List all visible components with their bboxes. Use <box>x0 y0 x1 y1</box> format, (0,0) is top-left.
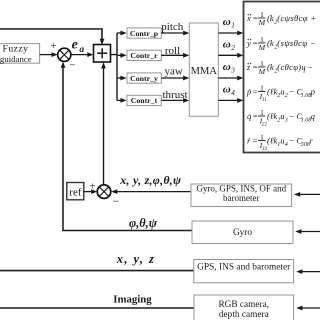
equation qdot <box>247 108 316 128</box>
label e_a <box>72 37 85 55</box>
svg-text:=: = <box>253 136 258 146</box>
svg-text:1: 1 <box>303 68 306 74</box>
svg-text:=: = <box>253 62 258 72</box>
svg-text:φ,θ,ψ: φ,θ,ψ <box>129 216 158 230</box>
block RGB camera depth camera <box>194 295 294 320</box>
svg-text:roll: roll <box>165 45 180 57</box>
svg-text:−: − <box>112 194 119 208</box>
summing junction S1 <box>58 48 71 61</box>
svg-text:Imaging: Imaging <box>113 293 152 305</box>
wire attitude feedback down-left with label phi,theta,psi <box>61 62 192 231</box>
svg-text:=: = <box>253 111 258 121</box>
svg-text:=: = <box>253 13 258 23</box>
svg-text:2: 2 <box>231 44 235 52</box>
equation yddot <box>246 35 316 52</box>
svg-text:Contr_r: Contr_r <box>130 51 158 60</box>
block ref <box>67 183 84 200</box>
svg-text:Contr_t: Contr_t <box>131 96 158 105</box>
svg-text:depth camera: depth camera <box>219 310 269 320</box>
wire MMA to model with label omega1 <box>218 16 243 36</box>
svg-text:3: 3 <box>230 66 235 74</box>
svg-text:pitch: pitch <box>161 21 183 33</box>
equation xddot <box>246 10 317 27</box>
svg-text:(k: (k <box>267 62 274 72</box>
svg-text:−: − <box>69 60 75 72</box>
svg-text:ω: ω <box>223 84 231 96</box>
wire Contr_p to MMA with label pitch <box>161 21 189 36</box>
svg-text:Contr_p: Contr_p <box>130 29 159 38</box>
svg-text:Gyro: Gyro <box>233 228 252 238</box>
svg-text:guidance: guidance <box>0 54 32 64</box>
svg-text:(k: (k <box>267 38 274 48</box>
wire S1 to summer block <box>71 52 94 57</box>
svg-text:4: 4 <box>231 89 235 97</box>
svg-text:+: + <box>89 180 95 192</box>
equation zddot <box>246 59 313 76</box>
wire right edge into GPS INS and barometer <box>296 269 320 274</box>
wire right edge into Gyro GPS INS OF barometer <box>294 192 320 197</box>
wire summer output and branch to controllers <box>111 31 127 103</box>
wire imaging with label Imaging <box>0 293 194 308</box>
svg-text:−: − <box>307 62 313 72</box>
svg-text:+: + <box>50 41 56 52</box>
svg-text:ω: ω <box>223 61 231 73</box>
svg-text:thrust: thrust <box>162 89 187 101</box>
svg-text:Contr_y: Contr_y <box>130 74 158 83</box>
svg-text:(cψsθcφ +: (cψsθcφ + <box>277 13 316 23</box>
block Gyro GPS INS OF and barometer <box>191 183 292 206</box>
wire ref to summing junction S2 <box>84 189 97 194</box>
svg-text:ω: ω <box>223 16 231 28</box>
wire MMA to model with label omega4 <box>218 84 243 103</box>
svg-text:x, y, z,φ,θ,ψ: x, y, z,φ,θ,ψ <box>119 173 182 187</box>
wire Fuzzy guidance to summing junction S1 <box>40 52 58 57</box>
svg-text:Fuzzy: Fuzzy <box>3 43 29 54</box>
block GPS INS and barometer <box>194 260 294 283</box>
svg-text:M: M <box>258 18 266 27</box>
svg-text:(ℓk: (ℓk <box>267 87 277 97</box>
svg-text:M: M <box>258 67 266 76</box>
summing junction S2 <box>97 185 111 199</box>
svg-text:308: 308 <box>300 142 310 148</box>
wire right edge into RGB camera <box>296 306 320 311</box>
svg-text:(ℓk: (ℓk <box>267 136 277 146</box>
svg-text:ref: ref <box>69 186 82 198</box>
block Fuzzy guidance <box>0 43 40 64</box>
equation pdot <box>246 83 316 103</box>
block Contr_r <box>127 50 161 60</box>
svg-text:33: 33 <box>261 146 268 152</box>
block Contr_t <box>127 95 161 105</box>
svg-text:GPS, INS and barometer: GPS, INS and barometer <box>197 262 291 272</box>
wire MMA to model with label omega2 <box>218 38 243 57</box>
wire feedback from sensors to S2 with label x,y,z,phi,theta,psi <box>111 173 191 194</box>
svg-text:1: 1 <box>231 21 235 29</box>
block MMA <box>189 23 218 116</box>
svg-text:3: 3 <box>284 117 288 123</box>
block dynamic model equations <box>244 2 320 153</box>
summer block (plus box) <box>94 45 111 63</box>
wire MMA to model with label omega3 <box>218 61 243 81</box>
svg-text:RGB camera,: RGB camera, <box>218 300 269 310</box>
svg-text:a: a <box>79 45 84 55</box>
wire position feedback with label x, y, z <box>0 252 194 271</box>
svg-text:4: 4 <box>285 141 288 148</box>
svg-text:ṗ: ṗ <box>246 87 252 97</box>
svg-text:x, y, z: x, y, z <box>116 252 156 266</box>
wire right edge into Gyro <box>295 229 320 234</box>
equation rdot <box>247 132 314 152</box>
svg-text:=: = <box>253 38 258 48</box>
svg-text:M: M <box>258 43 266 52</box>
svg-text:e: e <box>72 37 78 52</box>
svg-text:Gyro, GPS, INS, OF and: Gyro, GPS, INS, OF and <box>196 183 286 193</box>
svg-text:ω: ω <box>223 38 231 50</box>
svg-text:q: q <box>311 111 316 121</box>
svg-text:(sψsθcφ −: (sψsθcφ − <box>277 38 316 48</box>
svg-text:(ℓk: (ℓk <box>267 111 277 121</box>
svg-text:11: 11 <box>262 97 267 103</box>
svg-text:yaw: yaw <box>165 66 183 78</box>
svg-text:=: = <box>253 87 258 97</box>
block Contr_p <box>127 28 161 38</box>
svg-text:p: p <box>310 87 316 97</box>
wire Contr_r to MMA with label roll <box>161 45 189 58</box>
svg-text:2: 2 <box>285 93 288 99</box>
wire Contr_t to MMA with label thrust <box>161 89 189 103</box>
block Contr_y <box>127 73 161 83</box>
wire Contr_y to MMA with label yaw <box>161 66 189 81</box>
wire S2 up to summer block bottom <box>101 62 106 185</box>
svg-text:MMA: MMA <box>191 66 218 77</box>
wire top feedback line into summer <box>0 29 104 45</box>
svg-text:22: 22 <box>262 121 268 127</box>
svg-text:barometer: barometer <box>223 193 259 203</box>
svg-text:q̇: q̇ <box>247 111 252 121</box>
block Gyro <box>192 221 293 244</box>
svg-text:(k: (k <box>267 13 274 23</box>
